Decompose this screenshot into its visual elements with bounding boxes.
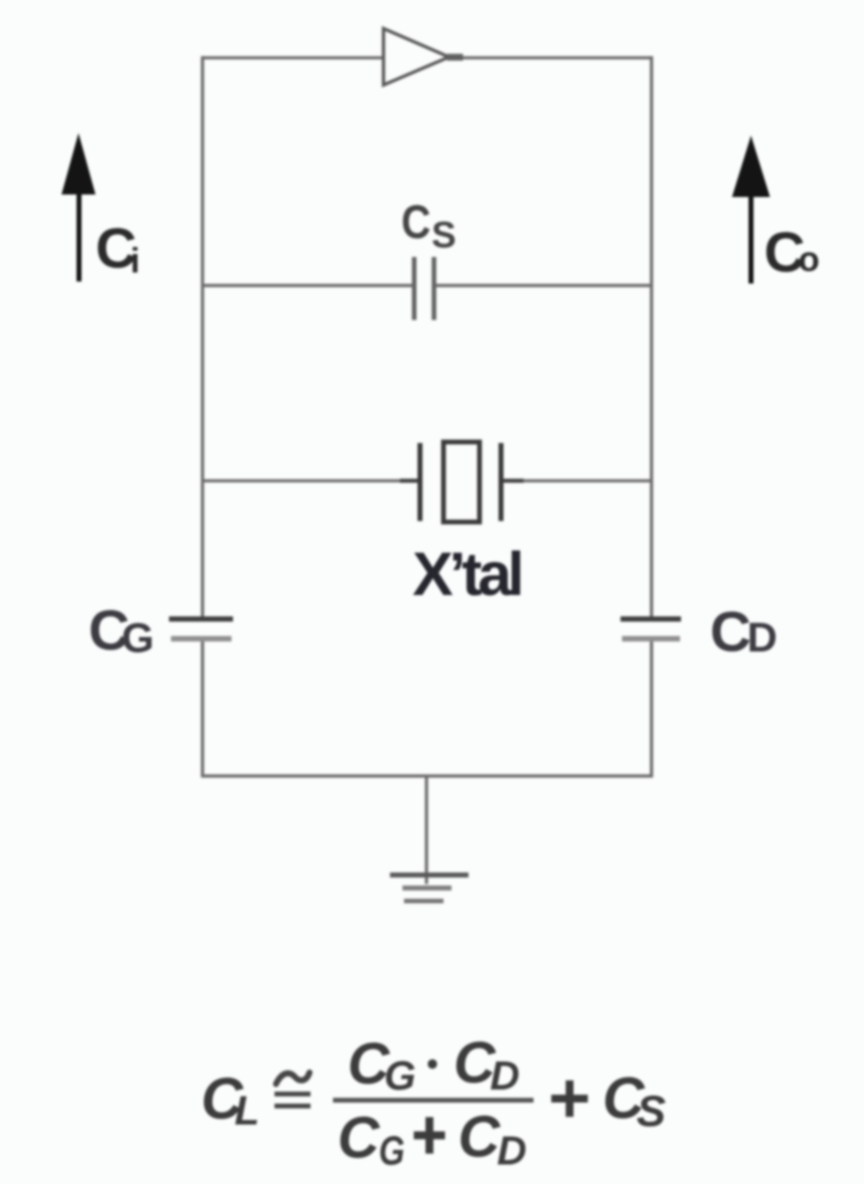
formula denominator CG + CD	[338, 1105, 527, 1174]
label Cs	[401, 195, 456, 256]
label Ci	[96, 217, 141, 281]
wire crystal branch (right dark stub)	[504, 479, 525, 483]
svg-text:i: i	[130, 242, 140, 281]
svg-text:C: C	[710, 600, 751, 664]
wire top (left segment into inverter input)	[201, 56, 384, 59]
svg-text:L: L	[235, 1088, 260, 1134]
svg-text:S: S	[432, 215, 457, 256]
svg-text:X’tal: X’tal	[413, 540, 525, 608]
svg-text:G: G	[384, 1053, 416, 1099]
formula numerator CG . CD	[348, 1031, 520, 1099]
wire left vertical (lower segment below CG)	[201, 642, 204, 778]
ground	[390, 875, 469, 901]
svg-text:G: G	[122, 614, 155, 661]
wire crystal branch (left gray segment)	[201, 479, 403, 482]
wire top (right segment from inverter output)	[460, 56, 653, 59]
node output nub at inverter tip	[447, 54, 463, 61]
svg-text:o: o	[798, 240, 819, 279]
wire Cs branch (right segment)	[436, 284, 652, 287]
wire crystal branch (left dark stub)	[400, 479, 418, 483]
wire ground stem	[425, 776, 428, 884]
wire left vertical (upper segment, node between Ci and CG)	[201, 56, 204, 616]
formula approx-equal sign	[275, 1073, 311, 1109]
svg-text:D: D	[497, 1128, 527, 1174]
wire Cs branch (left segment)	[201, 284, 412, 287]
capacitor CD plates	[621, 619, 682, 639]
svg-text:S: S	[637, 1087, 666, 1136]
wire bottom rail	[201, 774, 653, 777]
label Co	[764, 221, 820, 285]
svg-text:C: C	[338, 1106, 381, 1171]
svg-text:C: C	[401, 195, 431, 248]
wire right vertical (lower segment below CD)	[650, 642, 653, 778]
arrow Ci (input capacitance, pointing up)	[62, 133, 96, 282]
formula CL term	[201, 1067, 260, 1134]
formula fraction bar	[333, 1098, 534, 1103]
wire crystal branch (right gray segment)	[523, 479, 653, 482]
svg-text:G: G	[379, 1128, 405, 1174]
capacitor CG plates	[169, 619, 233, 639]
formula plus Cs term	[551, 1066, 666, 1136]
label CG	[89, 599, 155, 663]
wire right vertical (upper segment, node between Co and CD)	[650, 56, 653, 616]
op-amp U1 inverter triangle	[384, 29, 450, 86]
svg-text:C: C	[458, 1105, 501, 1170]
capacitor Cs plates	[414, 257, 434, 320]
label X'tal	[413, 540, 525, 608]
svg-text:D: D	[490, 1053, 520, 1099]
svg-text:D: D	[747, 614, 777, 661]
label CD	[710, 600, 777, 664]
crystal X1 (plates and resonator box)	[420, 442, 501, 522]
arrow Co (output capacitance, pointing up)	[732, 136, 770, 284]
